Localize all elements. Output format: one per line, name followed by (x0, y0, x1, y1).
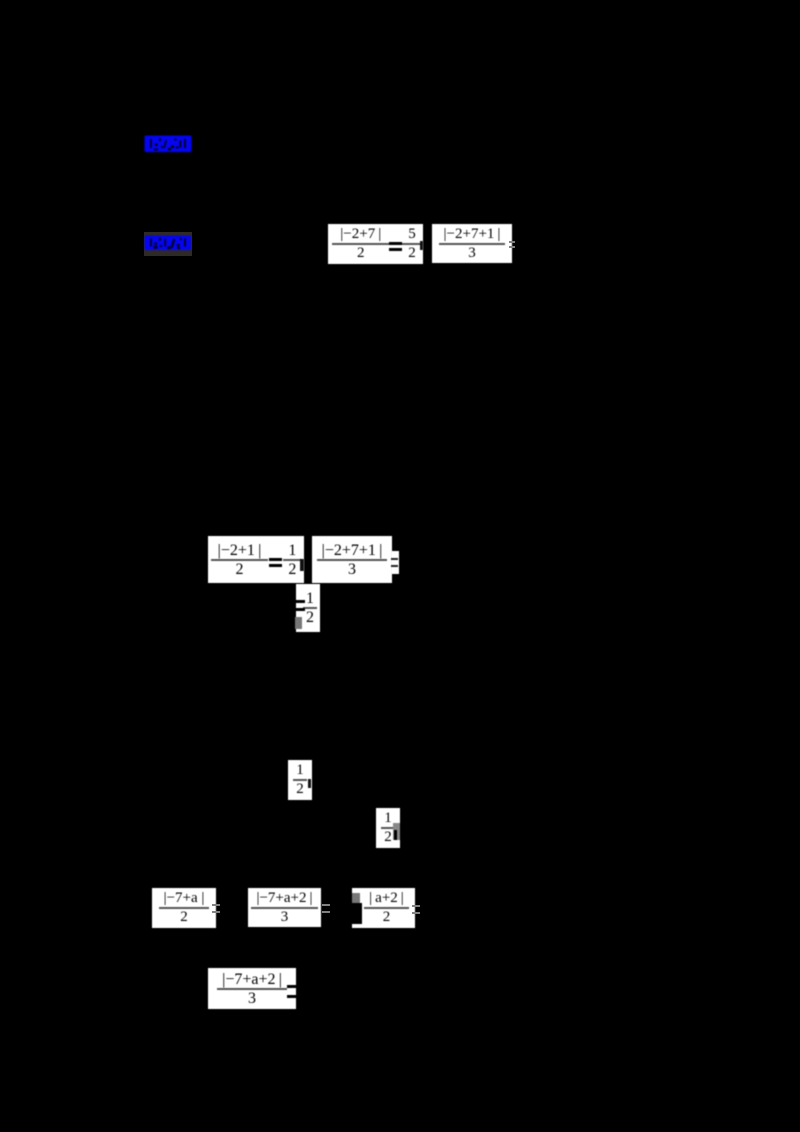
formula image 9: |-7+a+2|/3 (248, 888, 321, 927)
formula image 6: 1/2, (288, 760, 312, 800)
formula image 8: |-7+a|/2 (152, 888, 216, 928)
formula image 4: |-2+7+1|/3 (312, 536, 392, 583)
= after formula 4 on white sliver (391, 551, 399, 574)
blue label 1 (144, 135, 192, 153)
formula image 10: =|a+2|/2 (352, 888, 415, 928)
formula image 11: |-7+a+2|/3 = (208, 968, 296, 1009)
small = after formula 10 (412, 905, 420, 914)
highlight behind blue label 2 (144, 232, 192, 256)
formula image 2: |-2+7+1|/3 (432, 224, 512, 263)
formula image 5: = 1/2 (296, 584, 320, 632)
formula image 1: |-2+7|/2 = 5/2 (328, 224, 423, 264)
comma after formula 3 (300, 559, 304, 571)
formula image 3: |-2+1|/2 = 1/2, (208, 536, 304, 583)
small = after formula 2 (509, 241, 515, 248)
small = after formula 9 (322, 904, 330, 913)
blue label 2 (144, 235, 192, 251)
comma after formula 1 (420, 241, 423, 250)
formula image 7: 1/2, (376, 808, 400, 848)
small = after formula 8 (212, 904, 220, 913)
